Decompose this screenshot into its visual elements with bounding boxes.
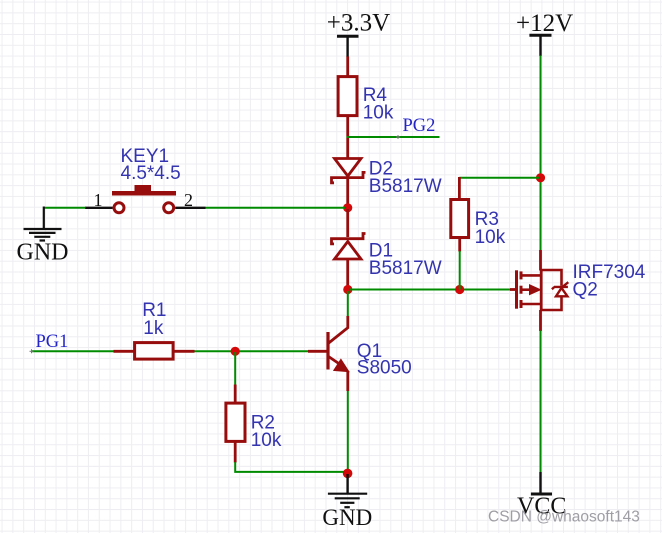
wire +3.3V to R4: [346, 57, 349, 77]
svg-text:10k: 10k: [475, 227, 506, 248]
transistor Q1 S8050: [308, 316, 412, 391]
resistor R2: [226, 385, 282, 463]
power +12V: [516, 10, 573, 56]
wire node E down to R2: [234, 352, 236, 385]
junction node C: [455, 285, 464, 294]
svg-text:+3.3V: +3.3V: [327, 10, 390, 37]
wire R2 to bottom ground rail: [235, 462, 347, 472]
svg-text:GND: GND: [17, 240, 69, 266]
wire node F to R3: [459, 177, 539, 179]
mosfet Q2 IRF7304: [510, 262, 646, 311]
junction node B: [343, 285, 352, 294]
junction node D: [343, 469, 353, 479]
wire GND to KEY1 pin 1: [44, 207, 86, 209]
wire Q1 emitter to node D: [347, 391, 349, 473]
resistor R1: [114, 300, 195, 359]
junction node F: [536, 173, 545, 182]
diode D2 B5817W: [332, 158, 442, 197]
wire PG2: [347, 136, 440, 138]
svg-text:4.5*4.5: 4.5*4.5: [121, 163, 181, 184]
ground GND left: [17, 207, 69, 266]
wire R1 to Q1 base: [195, 350, 309, 352]
junction node A: [343, 203, 352, 212]
wire R3 to node C: [459, 251, 461, 290]
svg-text:CSDN @whaosoft143: CSDN @whaosoft143: [488, 509, 640, 526]
wire Q2 drain pin: [539, 310, 542, 331]
wire Q2 source pin: [539, 250, 542, 271]
svg-text:B5817W: B5817W: [369, 258, 442, 279]
power VCC: [517, 472, 566, 520]
net label PG2: [347, 116, 440, 139]
svg-text:S8050: S8050: [357, 357, 412, 378]
svg-text:Q2: Q2: [573, 280, 598, 301]
junction node E: [231, 347, 240, 356]
svg-text:GND: GND: [322, 505, 372, 530]
wire node B down to Q1 collector: [347, 291, 349, 316]
svg-text:+12V: +12V: [516, 10, 573, 37]
wire KEY1 to node A: [206, 207, 346, 209]
resistor R4: [338, 77, 394, 124]
power +3.3V: [327, 10, 390, 57]
svg-text:2: 2: [184, 190, 193, 210]
wire node B to gate of Q2: [350, 289, 510, 291]
svg-text:1k: 1k: [143, 318, 164, 339]
resistor R3: [451, 177, 506, 252]
wire node A to D1: [346, 209, 349, 237]
svg-text:1: 1: [94, 190, 103, 210]
svg-text:10k: 10k: [363, 103, 394, 124]
svg-text:PG1: PG1: [36, 332, 69, 352]
ground GND bottom: [322, 474, 372, 530]
pushbutton KEY1: [85, 146, 206, 213]
wire Q2 drain to VCC: [540, 331, 542, 473]
svg-text:B5817W: B5817W: [369, 176, 442, 197]
wire D2 to node A: [346, 178, 349, 206]
wire R4 to D2: [346, 116, 349, 158]
diode D1 B5817W: [332, 234, 442, 279]
svg-text:PG2: PG2: [403, 116, 436, 136]
wire D1 to node B: [346, 260, 349, 288]
svg-text:10k: 10k: [251, 430, 282, 451]
wire PG1: [32, 350, 114, 352]
net label PG1: [30, 332, 114, 354]
wire +12V rail down to Q2 source: [540, 56, 542, 251]
